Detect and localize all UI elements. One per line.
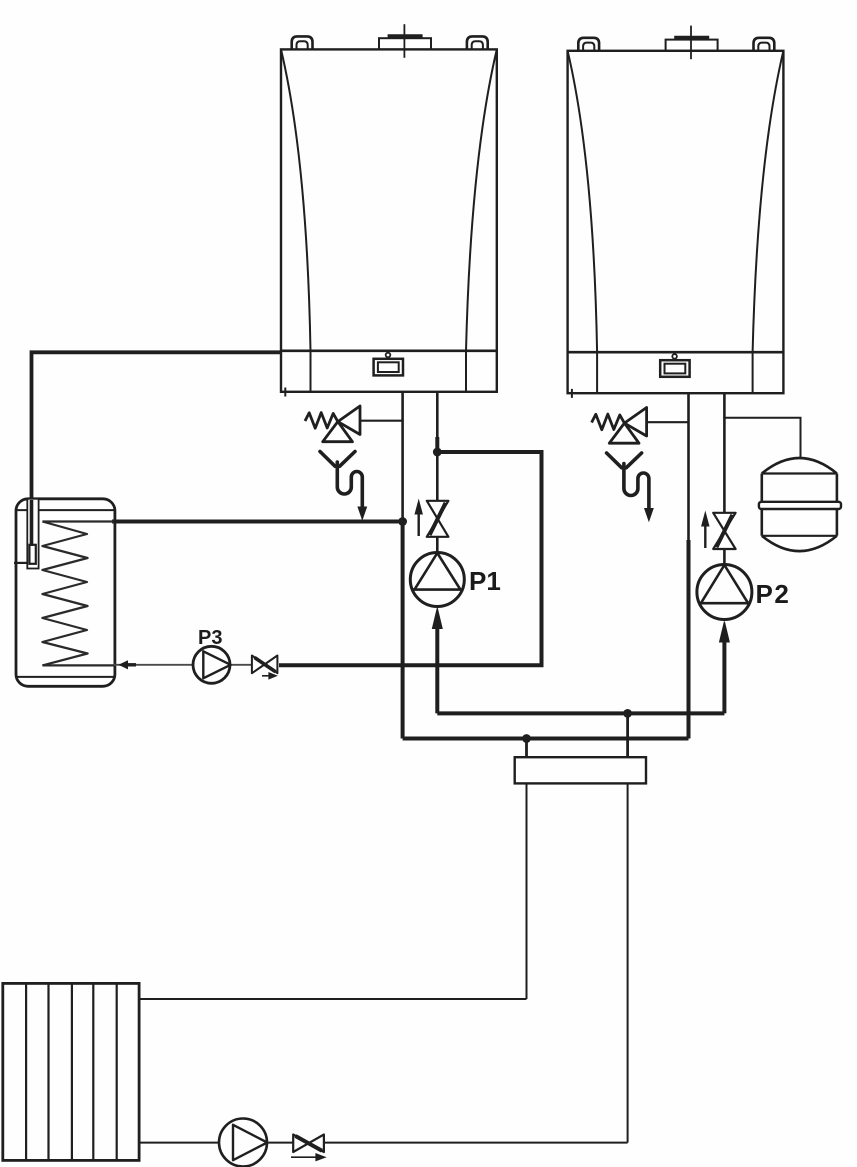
- junction node: tank line on left pipe: [398, 517, 407, 526]
- pipe: boiler1 to DHW tank sensor line: [32, 352, 283, 546]
- junction node: header right stub: [623, 709, 632, 718]
- svg-text:P1: P1: [469, 566, 501, 596]
- DHW cylinder: [16, 499, 115, 687]
- pipe: header to radiator flow: [526, 783, 528, 999]
- safety valve boiler1: [305, 406, 360, 442]
- thermowell: [27, 499, 38, 569]
- pipe: boiler1 left connection (down): [401, 392, 404, 522]
- arrow: P1 outlet flow up: [432, 608, 442, 629]
- pipe: tank coil top to P1 line junction: [112, 520, 403, 524]
- tank wall tick: [14, 562, 27, 564]
- boiler 1: [281, 24, 497, 396]
- coil heat exchanger: [42, 522, 87, 666]
- tundish boiler1: [320, 452, 366, 519]
- pipe: radiator flow line: [139, 998, 526, 1000]
- pipe: boiler1 left connection lower thick: [401, 522, 405, 739]
- radiator: [3, 983, 139, 1160]
- pipe: coil top inside tank: [42, 520, 114, 522]
- pipe: tank to P3 to valve: [114, 664, 252, 666]
- pipe: boiler1 right connection thick to junction: [435, 437, 439, 453]
- pipe: P1 outlet drop: [435, 627, 439, 713]
- check valve V2 above P2: [713, 513, 735, 549]
- junction node: header left stub: [522, 734, 531, 743]
- pump P3: [193, 646, 231, 683]
- safety valve boiler2: [592, 408, 647, 444]
- valve V4 radiator circuit: [293, 1135, 324, 1153]
- arrow: flow into tank: [120, 661, 137, 669]
- tundish boiler2: [607, 453, 653, 520]
- sensor wire in well: [30, 500, 34, 546]
- arrow: flow right under V4: [291, 1154, 326, 1161]
- pipe: boiler2 left connection lower thick: [687, 540, 691, 739]
- pipe: valve V2 to pump P2: [723, 549, 726, 566]
- pipe: boiler1 right connection upper: [436, 392, 439, 438]
- svg-text:P3: P3: [198, 627, 222, 649]
- arrow: P2 outlet flow up: [720, 622, 730, 643]
- check valve V1 above P1: [427, 501, 449, 537]
- pipe: header to radiator return riser: [627, 783, 629, 1142]
- arrow: flow up beside V2: [702, 513, 709, 549]
- pipe: safety valve 1 to pipe: [359, 420, 403, 422]
- pipe: coil bottom inside tank: [42, 664, 114, 666]
- pipe: junction to valve V1: [436, 452, 439, 501]
- pipe: valve V1 to pump P1: [436, 537, 439, 554]
- radiator circuit pump: [219, 1119, 267, 1167]
- pipe: boiler2 left connection upper: [687, 393, 690, 542]
- svg-text:P2: P2: [756, 579, 791, 609]
- pipe: boiler2 to expansion vessel: [724, 418, 800, 459]
- pipe: stub to low-loss header left: [525, 739, 528, 758]
- pipe: P2 outlet drop: [722, 640, 726, 713]
- boiler 2: [568, 26, 784, 398]
- sensor bulb: [29, 545, 35, 564]
- low-loss header body: [515, 757, 646, 783]
- pipe: boiler2 right connection upper: [723, 393, 726, 513]
- arrow: flow right under V3: [262, 673, 277, 679]
- pipe: P1 bypass loop right side: [279, 452, 542, 665]
- valve V3 after P3: [252, 656, 278, 674]
- expansion vessel: [759, 458, 841, 551]
- pipe: safety valve 2 to pipe: [646, 421, 689, 423]
- arrow: flow up beside V1: [415, 501, 422, 537]
- pipe: bottom header line boiler circuit: [403, 737, 689, 741]
- pipe: stub to low-loss header right: [626, 713, 629, 757]
- pipe: radiator return line: [139, 1142, 627, 1144]
- pipe: pumps outlet manifold line: [437, 711, 724, 715]
- junction node: boiler1 right pipe: [433, 448, 442, 457]
